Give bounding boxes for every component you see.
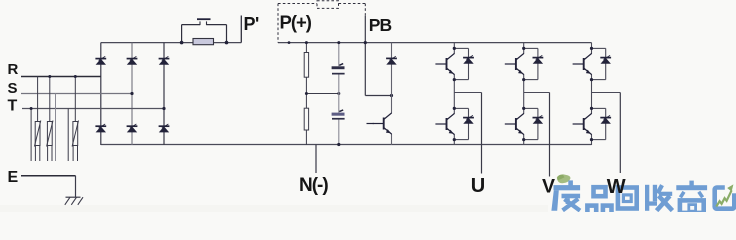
svg-text:P(+): P(+) <box>280 11 312 32</box>
svg-text:E: E <box>8 169 19 186</box>
svg-text:PB: PB <box>369 15 392 35</box>
svg-text:N(-): N(-) <box>299 175 328 196</box>
svg-text:T: T <box>8 98 18 115</box>
svg-text:W: W <box>607 176 626 198</box>
svg-text:R: R <box>8 61 19 78</box>
svg-text:P': P' <box>244 14 260 34</box>
svg-text:S: S <box>8 80 18 97</box>
svg-text:V: V <box>542 176 555 198</box>
svg-text:U: U <box>471 175 485 197</box>
